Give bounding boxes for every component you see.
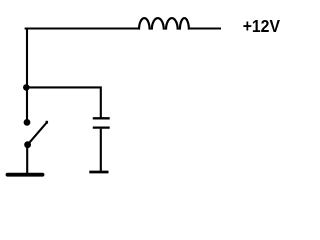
switch S1 blade tip nub (46, 121, 49, 124)
capacitor C1 bottom plate (93, 126, 110, 128)
wire: switch to ground (26, 145, 28, 173)
wire: inductor to +12V (190, 27, 221, 29)
wire: top rail from corner to inductor (25, 27, 138, 29)
ground bar under capacitor (89, 171, 108, 174)
wire: capacitor to bottom bar (100, 129, 102, 171)
inductor L1 (4 loops) (139, 18, 189, 30)
switch S1 blade (28, 123, 47, 145)
capacitor C1 top plate (93, 117, 110, 119)
wire: left vertical from top corner to switch (26, 28, 28, 120)
switch S1 lower contact dot (24, 141, 31, 148)
svg-text:+12V: +12V (243, 16, 281, 36)
switch S1 upper contact dot (24, 119, 31, 126)
ground (8, 173, 43, 177)
node: junction dot (23, 84, 30, 91)
wire: junction to capacitor (with corner down) (27, 87, 101, 118)
